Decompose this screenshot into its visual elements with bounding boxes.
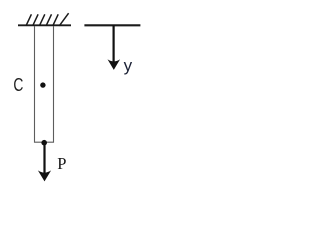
reference top line (right) [84, 24, 140, 26]
bar outline [35, 26, 54, 142]
hatch mark 4 [46, 14, 51, 25]
svg-text:C: C [13, 74, 23, 95]
fixed support ceiling line [18, 24, 71, 26]
hatch mark 5 [53, 14, 58, 25]
force P arrowhead [38, 170, 51, 181]
svg-text:y: y [124, 56, 133, 75]
force P arrow shaft [43, 143, 45, 174]
y axis arrowhead [108, 59, 121, 70]
y axis arrow shaft [112, 25, 114, 63]
hatch mark 1 [26, 14, 31, 25]
hatch mark 2 [33, 14, 38, 25]
svg-text:P: P [57, 154, 66, 173]
hatch mark 6 (long) [59, 13, 68, 26]
bottom node dot [41, 140, 47, 146]
center-of-mass dot [40, 82, 45, 87]
hatch mark 3 [39, 14, 44, 25]
